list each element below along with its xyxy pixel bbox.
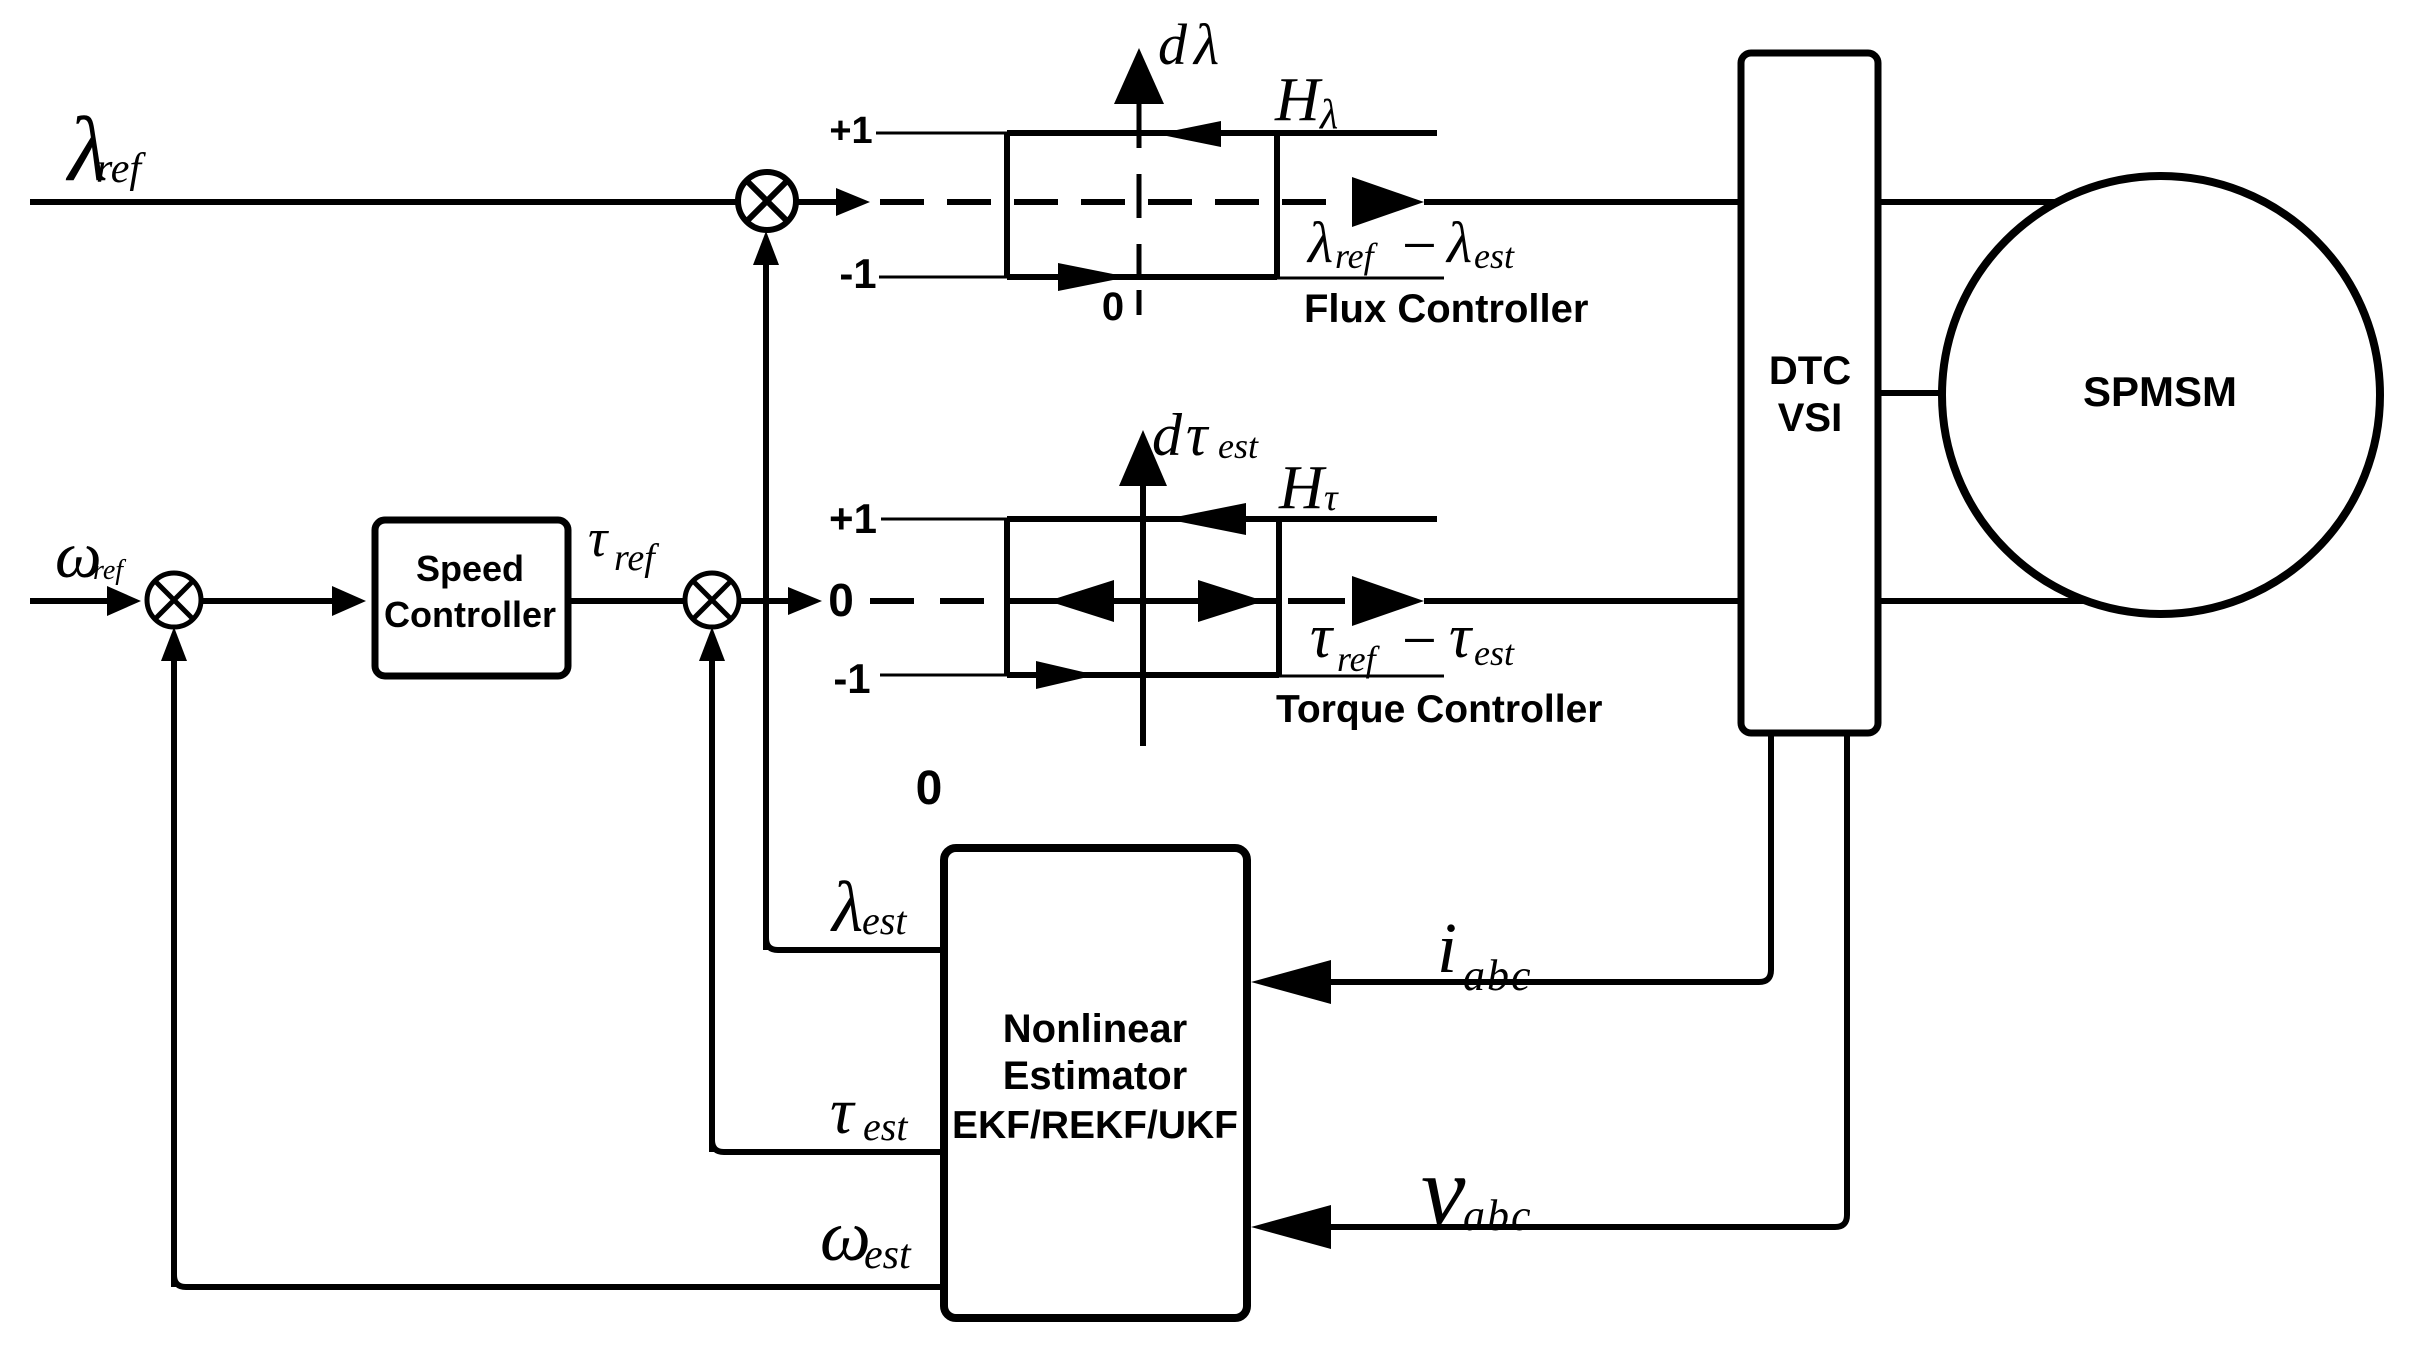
svg-text:EKF/REKF/UKF: EKF/REKF/UKF	[952, 1104, 1238, 1147]
svg-text:abc: abc	[1463, 1191, 1533, 1240]
svg-text:0: 0	[1102, 285, 1124, 329]
svg-text:est: est	[1474, 633, 1515, 673]
svg-text:VSI: VSI	[1778, 396, 1842, 440]
svg-text:ref: ref	[614, 537, 659, 579]
svg-text:SPMSM: SPMSM	[2083, 368, 2237, 415]
svg-text:λ: λ	[1192, 12, 1219, 77]
svg-text:τ: τ	[1324, 477, 1339, 519]
svg-text:v: v	[1421, 1135, 1466, 1246]
svg-text:est: est	[864, 1232, 912, 1278]
svg-text:+1: +1	[829, 110, 872, 152]
svg-text:+1: +1	[829, 495, 877, 542]
svg-text:ref: ref	[1335, 236, 1379, 276]
svg-text:Estimator: Estimator	[1003, 1054, 1188, 1098]
svg-text:τ: τ	[588, 508, 609, 568]
svg-text:0: 0	[916, 762, 943, 815]
svg-text:τ: τ	[1449, 603, 1474, 671]
svg-text:ref: ref	[96, 146, 146, 192]
svg-text:λ: λ	[830, 867, 863, 947]
svg-text:-1: -1	[839, 250, 876, 297]
svg-text:d: d	[1158, 12, 1188, 77]
svg-text:dτ: dτ	[1152, 402, 1211, 468]
svg-text:Torque Controller: Torque Controller	[1276, 688, 1602, 731]
svg-text:−: −	[1398, 212, 1440, 280]
svg-text:τ: τ	[830, 1075, 856, 1148]
svg-text:est: est	[862, 898, 907, 943]
svg-text:DTC: DTC	[1769, 349, 1851, 393]
svg-text:ref: ref	[1337, 639, 1381, 679]
svg-text:i: i	[1437, 908, 1457, 988]
svg-text:−: −	[1398, 607, 1440, 675]
svg-text:est: est	[863, 1104, 908, 1149]
svg-text:abc: abc	[1463, 951, 1533, 1000]
svg-text:λ: λ	[1306, 210, 1333, 275]
svg-text:-1: -1	[833, 655, 870, 702]
svg-text:ref: ref	[93, 555, 126, 586]
svg-text:Flux Controller: Flux Controller	[1304, 287, 1588, 331]
svg-text:λ: λ	[1445, 210, 1472, 275]
svg-text:H: H	[1278, 454, 1327, 522]
svg-text:Controller: Controller	[384, 594, 556, 635]
svg-text:est: est	[1218, 426, 1259, 466]
svg-text:H: H	[1274, 66, 1323, 134]
svg-text:τ: τ	[1310, 603, 1335, 671]
svg-text:0: 0	[828, 574, 854, 626]
svg-text:λ: λ	[1318, 92, 1338, 138]
svg-text:Nonlinear: Nonlinear	[1003, 1007, 1187, 1051]
svg-text:est: est	[1474, 236, 1515, 276]
svg-text:Speed: Speed	[416, 548, 524, 589]
